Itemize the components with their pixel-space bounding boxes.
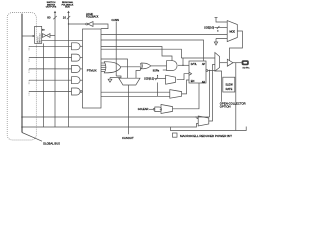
svg-text:GCK[0:2]: GCK[0:2] — [144, 78, 154, 81]
svg-text:MACROCELL REDUCED POWER BIT: MACROCELL REDUCED POWER BIT — [180, 134, 232, 138]
svg-text:GLOBAL BUS: GLOBAL BUS — [43, 141, 60, 145]
svg-text:80: 80 — [47, 16, 51, 20]
svg-text:OUTPUTS: OUTPUTS — [46, 7, 57, 9]
svg-text:40: 40 — [42, 30, 45, 32]
svg-text:CASIN: CASIN — [112, 19, 120, 22]
svg-text:SLEW: SLEW — [225, 83, 233, 87]
svg-text:SWITCH: SWITCH — [37, 36, 39, 43]
svg-text:3: 3 — [157, 76, 159, 78]
svg-text:CASOUT: CASOUT — [122, 136, 134, 140]
svg-text:4: 4 — [217, 31, 219, 33]
svg-text:I/O Pin: I/O Pin — [243, 67, 250, 69]
svg-text:BUS: BUS — [65, 7, 70, 9]
svg-text:FOLDBACK: FOLDBACK — [86, 16, 99, 19]
svg-text:EN: EN — [191, 80, 195, 83]
svg-text:GOE[0:3]: GOE[0:3] — [204, 27, 214, 30]
svg-text:I/OPin: I/OPin — [153, 70, 160, 72]
svg-text:AR: AR — [202, 81, 206, 84]
svg-text:D/T/L: D/T/L — [191, 63, 198, 66]
svg-text:RATE: RATE — [226, 87, 233, 91]
svg-text:PTMUX: PTMUX — [87, 68, 97, 72]
svg-text:16: 16 — [63, 16, 67, 20]
svg-text:AP: AP — [202, 63, 206, 66]
svg-text:MOE: MOE — [229, 30, 235, 33]
svg-text:OPTION: OPTION — [220, 105, 231, 109]
svg-text:GCLEAR: GCLEAR — [138, 107, 149, 111]
